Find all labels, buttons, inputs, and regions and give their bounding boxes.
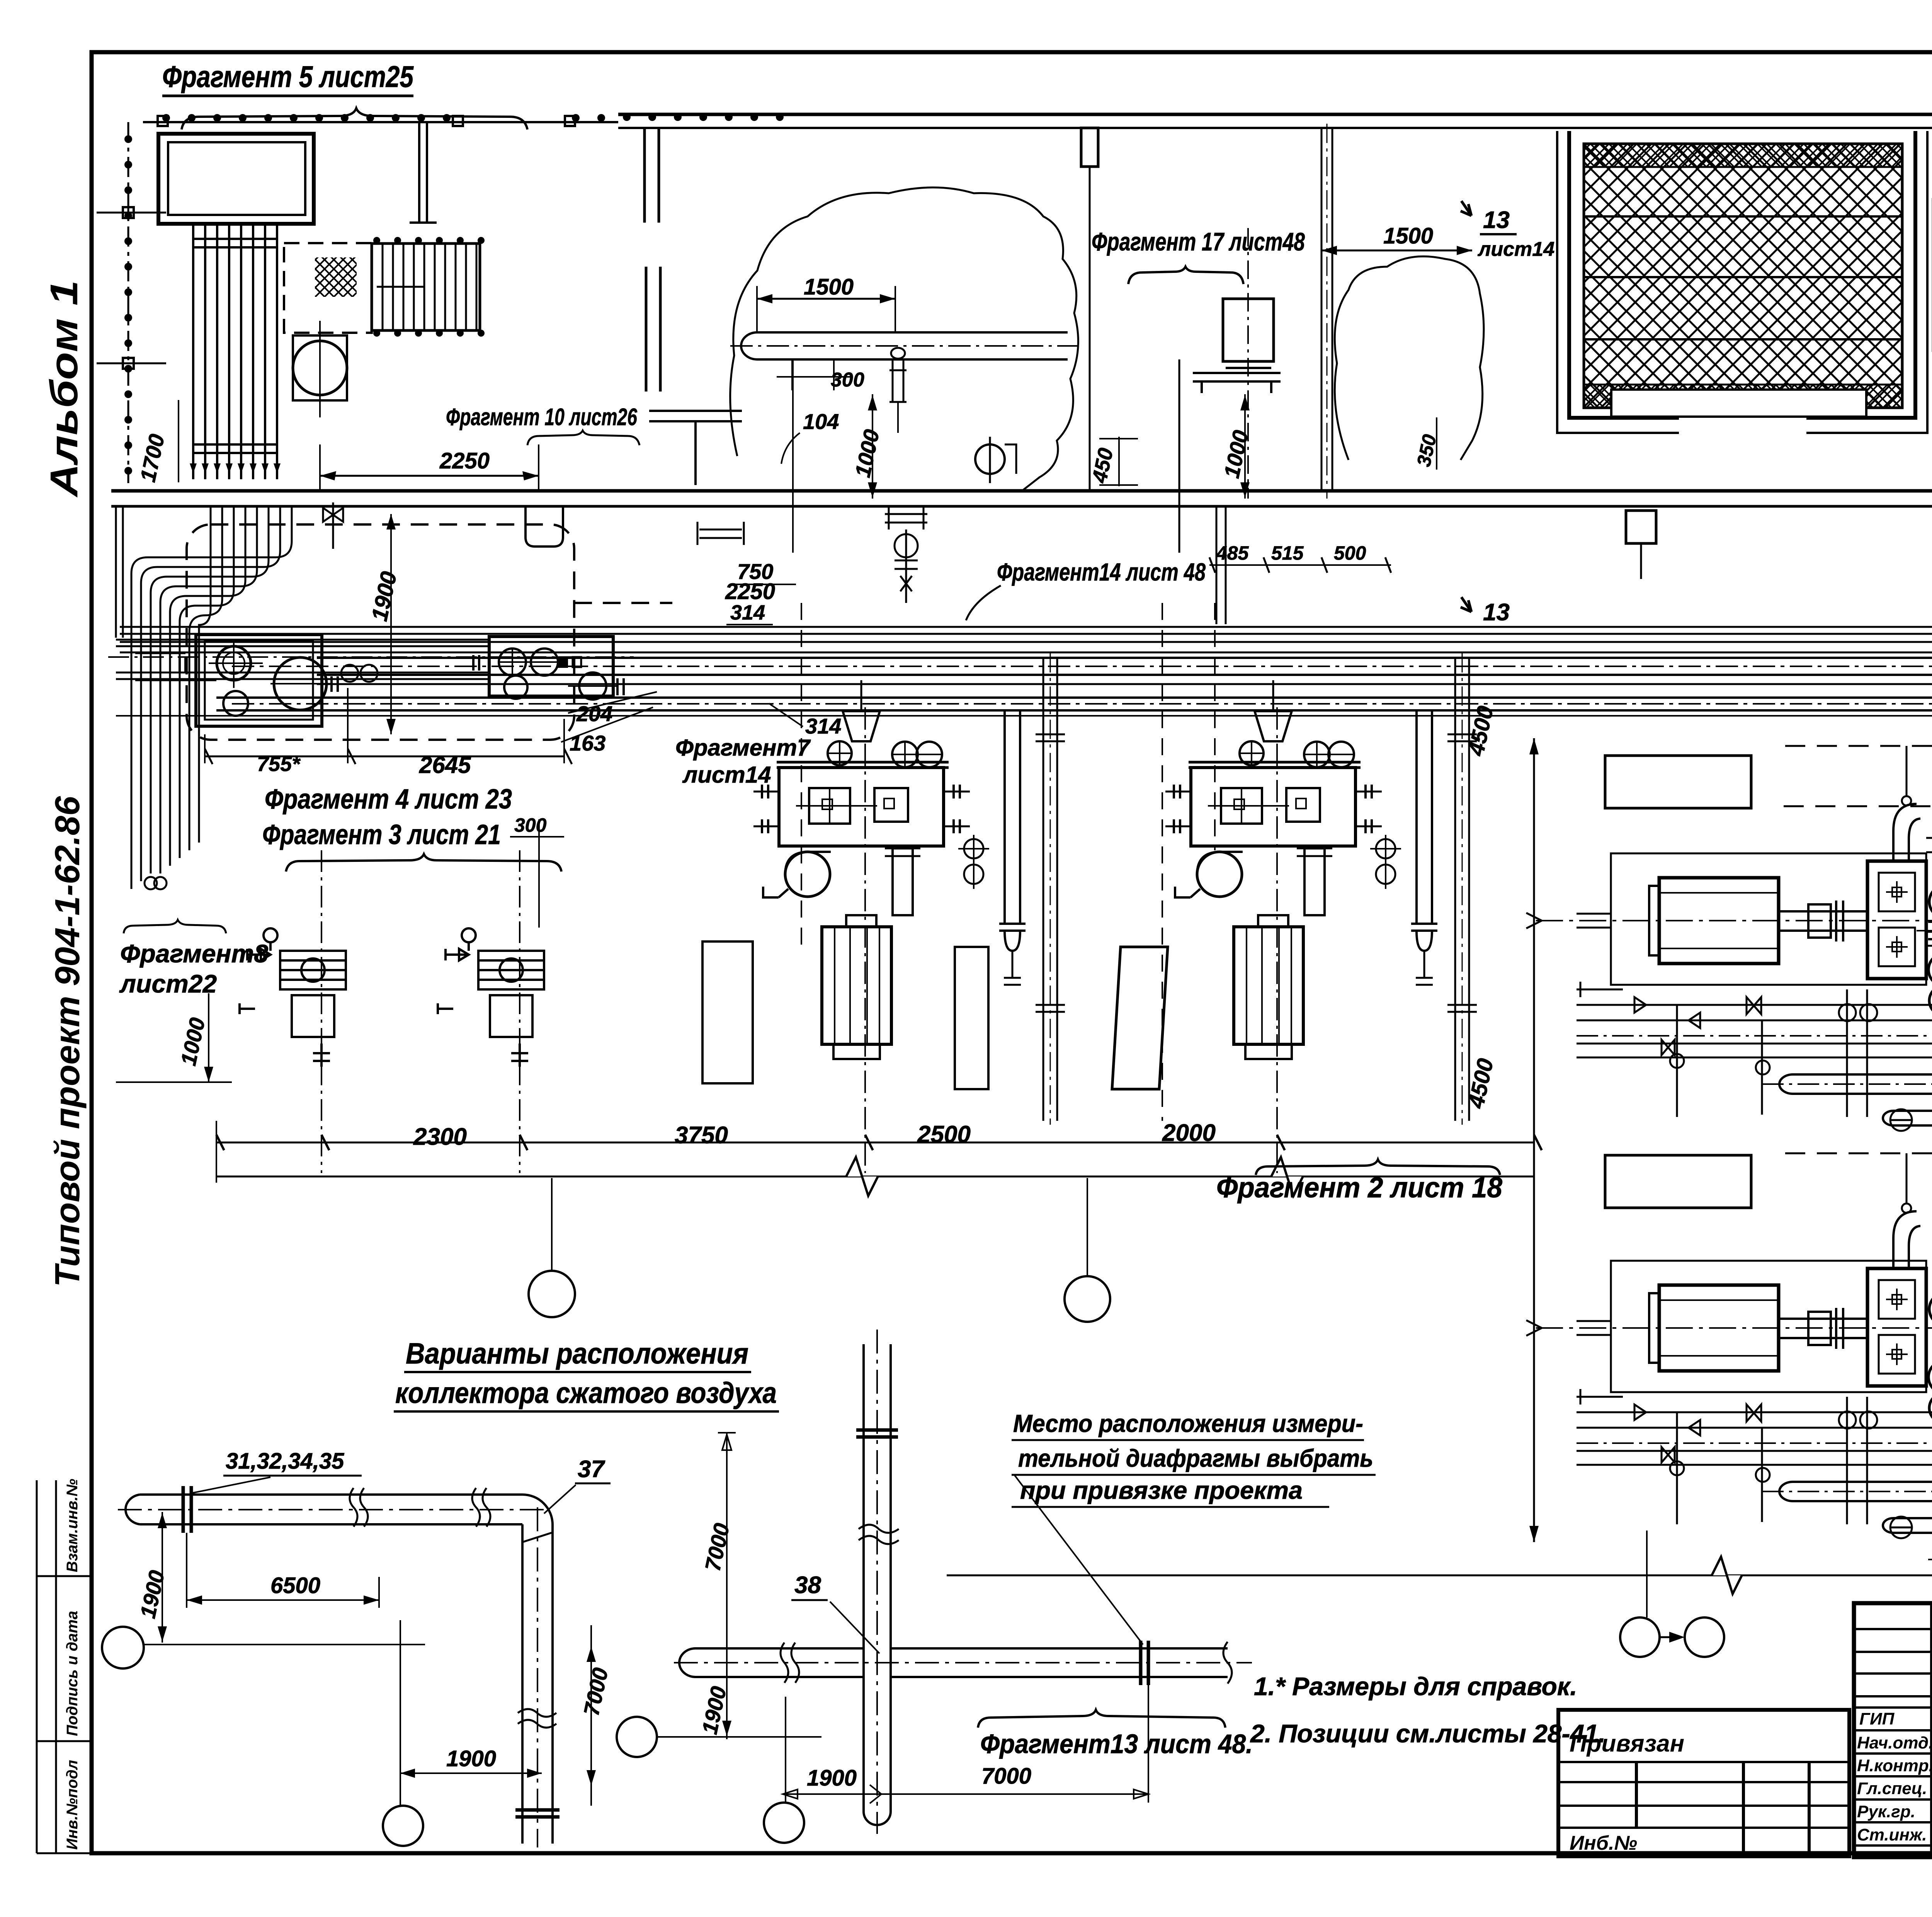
motor bbox=[1659, 878, 1779, 964]
svg-text:2. Позиции см.листы 28-41.: 2. Позиции см.листы 28-41. bbox=[1250, 1719, 1605, 1748]
horizontal pipe with round cap bbox=[757, 332, 1068, 359]
svg-text:13: 13 bbox=[1483, 207, 1510, 233]
svg-text:7000: 7000 bbox=[981, 1764, 1031, 1789]
fragment 13 brace bbox=[978, 1710, 1225, 1728]
plinth side flanges bbox=[762, 785, 960, 833]
band centerlines bbox=[232, 666, 1932, 667]
svg-text:Место расположения измери-: Место расположения измери- bbox=[1013, 1410, 1363, 1437]
sketch2 horizontal pipe bbox=[696, 1648, 1228, 1677]
pump B circles bbox=[499, 649, 526, 676]
machine outline bbox=[1611, 853, 1926, 985]
wall pier below main wall bbox=[1626, 511, 1656, 543]
fragment 2 brace bbox=[1256, 1159, 1500, 1175]
fragment 5 brace bbox=[182, 108, 527, 129]
svg-text:1.* Размеры для справок.: 1.* Размеры для справок. bbox=[1254, 1672, 1577, 1701]
privyazan table outer bbox=[1558, 1710, 1849, 1856]
axis circles pair with arrow bbox=[1620, 1617, 1660, 1657]
valves mid bbox=[1662, 997, 1761, 1055]
svg-text:Фрагмент 5 лист25: Фрагмент 5 лист25 bbox=[162, 60, 414, 94]
svg-text:1500: 1500 bbox=[1383, 223, 1433, 249]
capped pipe stub bbox=[1926, 838, 1932, 852]
volute bbox=[785, 852, 830, 897]
block frame walls bbox=[1569, 131, 1915, 418]
sketch1 break marks bbox=[350, 1488, 368, 1527]
svg-text:Фрагмент14 лист 48: Фрагмент14 лист 48 bbox=[997, 558, 1206, 586]
top circles bbox=[828, 741, 852, 765]
left pipe stubs bbox=[1577, 982, 1700, 1028]
nested elbows to left cluster bbox=[151, 507, 269, 873]
sketch2 breaks on horizontal bbox=[781, 1643, 799, 1683]
svg-text:2645: 2645 bbox=[419, 752, 471, 778]
svg-text:Фрагмент7: Фрагмент7 bbox=[675, 735, 811, 761]
svg-text:Фрагмент 10 лист26: Фрагмент 10 лист26 bbox=[446, 404, 637, 431]
names column bbox=[1857, 1709, 1932, 1844]
svg-text:лист22: лист22 bbox=[119, 969, 217, 998]
svg-text:31,32,34,35: 31,32,34,35 bbox=[226, 1449, 344, 1474]
svg-text:Фрагмент 4 лист 23: Фрагмент 4 лист 23 bbox=[265, 784, 512, 815]
svg-text:485: 485 bbox=[1216, 542, 1249, 564]
svg-text:Нач.отд.: Нач.отд. bbox=[1857, 1733, 1932, 1752]
pump A circles bbox=[217, 646, 251, 680]
svg-text:коллектора сжатого воздуха: коллектора сжатого воздуха bbox=[395, 1377, 777, 1410]
svg-text:515: 515 bbox=[1271, 542, 1304, 564]
compressor frame bbox=[1867, 861, 1926, 979]
header valve bbox=[323, 502, 343, 549]
svg-text:500: 500 bbox=[1334, 542, 1366, 564]
axis circle 2 bbox=[1065, 1276, 1110, 1322]
hatched box with grille bbox=[284, 243, 372, 333]
svg-text:1900: 1900 bbox=[807, 1765, 857, 1791]
pump group A frame bbox=[196, 635, 322, 726]
svg-text:Взам.инв.№: Взам.инв.№ bbox=[64, 1479, 81, 1572]
centerline bbox=[864, 707, 866, 1173]
tank rectangle bbox=[158, 134, 314, 224]
sketch2 flange right bbox=[1141, 1641, 1148, 1685]
svg-text:Фрагмент 17 лист48: Фрагмент 17 лист48 bbox=[1092, 227, 1305, 256]
svg-text:2300: 2300 bbox=[413, 1124, 467, 1150]
machine on bench bbox=[1223, 299, 1274, 361]
names table rows bbox=[1854, 1629, 1932, 1845]
svg-text:Фрагмент13 лист 48.: Фрагмент13 лист 48. bbox=[980, 1729, 1253, 1759]
section label 13 list 14 bbox=[1461, 201, 1471, 216]
svg-text:ГИП: ГИП bbox=[1859, 1709, 1895, 1728]
sketch1 elbow bbox=[522, 1495, 553, 1844]
svg-text:Фрагмент8: Фрагмент8 bbox=[120, 939, 268, 968]
white bench strip bbox=[1611, 390, 1866, 417]
svg-text:Ст.инж.: Ст.инж. bbox=[1857, 1825, 1927, 1844]
svg-text:163: 163 bbox=[570, 731, 605, 755]
section label 13 lower bbox=[1461, 597, 1471, 612]
svg-text:204: 204 bbox=[576, 701, 612, 726]
small valve pair right bbox=[697, 522, 744, 545]
vertical pipe drops center bbox=[1179, 128, 1332, 624]
left interior wall segment lower bbox=[646, 267, 660, 392]
svg-text:лист14: лист14 bbox=[682, 762, 771, 788]
svg-text:2250: 2250 bbox=[439, 448, 490, 473]
sketch1 horizontal pipe bbox=[140, 1495, 522, 1524]
floor pad parallelogram bbox=[1112, 947, 1168, 1089]
svg-text:Типовой проект 904-1-62.86: Типовой проект 904-1-62.86 bbox=[48, 796, 87, 1287]
svg-text:755*: 755* bbox=[257, 752, 301, 776]
dashed supply lines bbox=[1784, 746, 1932, 806]
svg-text:Рук.гр.: Рук.гр. bbox=[1857, 1802, 1915, 1821]
axis circle 1 bbox=[529, 1271, 575, 1317]
insulation dots on top wall bbox=[162, 113, 784, 122]
svg-text:104: 104 bbox=[803, 409, 839, 434]
wall axis squares bbox=[158, 116, 168, 126]
long dim line bottom bbox=[947, 1575, 1932, 1577]
names table verticals bbox=[1931, 1603, 1932, 1857]
break zigzag bbox=[846, 1157, 878, 1196]
floor pad right of cluster bbox=[702, 941, 753, 1083]
sketch2 top flange bbox=[856, 1430, 898, 1437]
axis line and circle sk1 bbox=[144, 1644, 425, 1645]
crosshatched body bbox=[1584, 144, 1902, 408]
fragment 10 brace bbox=[527, 431, 639, 445]
machine pipe going right bbox=[1928, 922, 1932, 939]
plinth bbox=[779, 768, 944, 846]
svg-text:лист14: лист14 bbox=[1477, 238, 1554, 260]
svg-text:Фрагмент 2 лист 18: Фрагмент 2 лист 18 bbox=[1216, 1171, 1503, 1204]
dim row 755 2645 bbox=[205, 756, 564, 758]
svg-text:Варианты расположения: Варианты расположения bbox=[406, 1337, 748, 1370]
main dim line bbox=[216, 1142, 1534, 1144]
pump circle bbox=[975, 444, 1005, 474]
floor pads bbox=[1605, 756, 1751, 808]
interior ledge bbox=[649, 411, 742, 485]
band lines bbox=[120, 627, 1932, 634]
hanging valve bbox=[889, 348, 906, 402]
small valves between groups bbox=[341, 665, 358, 682]
sketch2 vertical pipe bbox=[864, 1344, 891, 1811]
svg-text:Фрагмент 3 лист 21: Фрагмент 3 лист 21 bbox=[262, 819, 501, 850]
tower arrowheads bbox=[190, 463, 281, 473]
svg-text:при привязке проекта: при привязке проекта bbox=[1020, 1476, 1303, 1504]
lower pump assembly 1 bbox=[240, 850, 346, 1173]
hopper bbox=[843, 711, 880, 741]
dashed axis lines bbox=[801, 603, 802, 947]
svg-text:тельной диафрагмы выбрать: тельной диафрагмы выбрать bbox=[1018, 1444, 1373, 1472]
valve cluster below wall center bbox=[885, 506, 927, 603]
tall pipe pair bbox=[1043, 657, 1057, 1121]
svg-text:1900: 1900 bbox=[446, 1746, 496, 1771]
top plate bbox=[777, 762, 949, 768]
left margin strip columns bbox=[37, 1480, 56, 1853]
main long wall double line bbox=[111, 489, 1932, 493]
title block outer bbox=[1854, 1603, 1932, 1857]
svg-text:Инб.№: Инб.№ bbox=[1570, 1832, 1637, 1854]
pedestal and motor bbox=[846, 915, 876, 927]
floor pad between units bbox=[955, 947, 988, 1089]
wall pier below top wall bbox=[1081, 128, 1098, 167]
svg-text:37: 37 bbox=[578, 1456, 605, 1483]
svg-text:314: 314 bbox=[730, 601, 765, 624]
svg-text:300: 300 bbox=[514, 814, 547, 836]
top wall double line (right segment) bbox=[618, 113, 1932, 116]
vertical dim line bbox=[1533, 738, 1535, 1542]
shaft and coupling bbox=[1779, 911, 1867, 931]
svg-text:2000: 2000 bbox=[1162, 1120, 1216, 1146]
intake elbow up bbox=[1893, 804, 1920, 861]
fragment 8 brace bbox=[124, 920, 226, 933]
axis circle sk2 bbox=[617, 1717, 657, 1757]
compressor unit 2 bbox=[1165, 653, 1477, 1173]
svg-text:38: 38 bbox=[794, 1572, 821, 1599]
svg-text:13: 13 bbox=[1483, 599, 1510, 626]
svg-text:Н.контр.: Н.контр. bbox=[1857, 1756, 1932, 1775]
pump B dark valves bbox=[558, 656, 568, 668]
fan circle bbox=[293, 341, 347, 395]
cloud outline 2 bbox=[1335, 256, 1484, 460]
svg-text:Гл.спец.: Гл.спец. bbox=[1857, 1779, 1927, 1798]
left interior wall segment upper bbox=[645, 128, 659, 223]
dashed header loop bbox=[187, 524, 574, 740]
svg-text:2500: 2500 bbox=[917, 1121, 971, 1148]
pipe to right wall group1 bbox=[1926, 932, 1932, 946]
svg-text:3750: 3750 bbox=[675, 1122, 728, 1149]
svg-text:Подпись и дата: Подпись и дата bbox=[64, 1611, 81, 1736]
dim 300 bbox=[792, 359, 834, 390]
top wall axis line with insulation dots (left segment) bbox=[143, 121, 618, 123]
fragment 17 brace bbox=[1128, 267, 1243, 284]
ladder platform bbox=[372, 243, 480, 330]
sketch2 vertical break bbox=[859, 1525, 899, 1544]
right pipes bbox=[1005, 711, 1020, 924]
dim ticks bbox=[216, 1135, 1542, 1150]
svg-text:314: 314 bbox=[805, 714, 841, 738]
column bbox=[893, 848, 913, 915]
fragment 3 brace bbox=[286, 854, 561, 872]
svg-text:300: 300 bbox=[831, 369, 864, 391]
sketch1 flange bbox=[183, 1486, 191, 1533]
svg-text:6500: 6500 bbox=[270, 1573, 320, 1598]
crank circles bbox=[1929, 885, 1932, 918]
svg-text:Альбом 1: Альбом 1 bbox=[43, 280, 86, 498]
sketch1 vertical break + flange bbox=[518, 1709, 556, 1728]
pump A flanges bbox=[180, 657, 338, 692]
lower pump assembly 2 bbox=[438, 850, 544, 1173]
compressor unit 1 bbox=[753, 653, 1065, 1173]
left margin strip dividers bbox=[37, 1576, 92, 1853]
pump group B frame bbox=[489, 637, 613, 696]
connecting pipes bbox=[116, 640, 491, 679]
nest terminations bbox=[145, 877, 157, 889]
dim 1500 over pipe bbox=[757, 298, 895, 300]
striped tower bbox=[193, 224, 277, 479]
cloud outline 1 bbox=[730, 187, 1078, 491]
svg-text:2250: 2250 bbox=[725, 579, 775, 604]
pipes below machine bbox=[1577, 1005, 1932, 1020]
svg-text:1500: 1500 bbox=[804, 274, 854, 300]
centerline bbox=[1536, 920, 1932, 921]
U drop from wall bbox=[526, 507, 563, 546]
svg-text:Инв.№подл: Инв.№подл bbox=[64, 1760, 81, 1850]
vertical wall axis with dots bbox=[128, 122, 129, 483]
